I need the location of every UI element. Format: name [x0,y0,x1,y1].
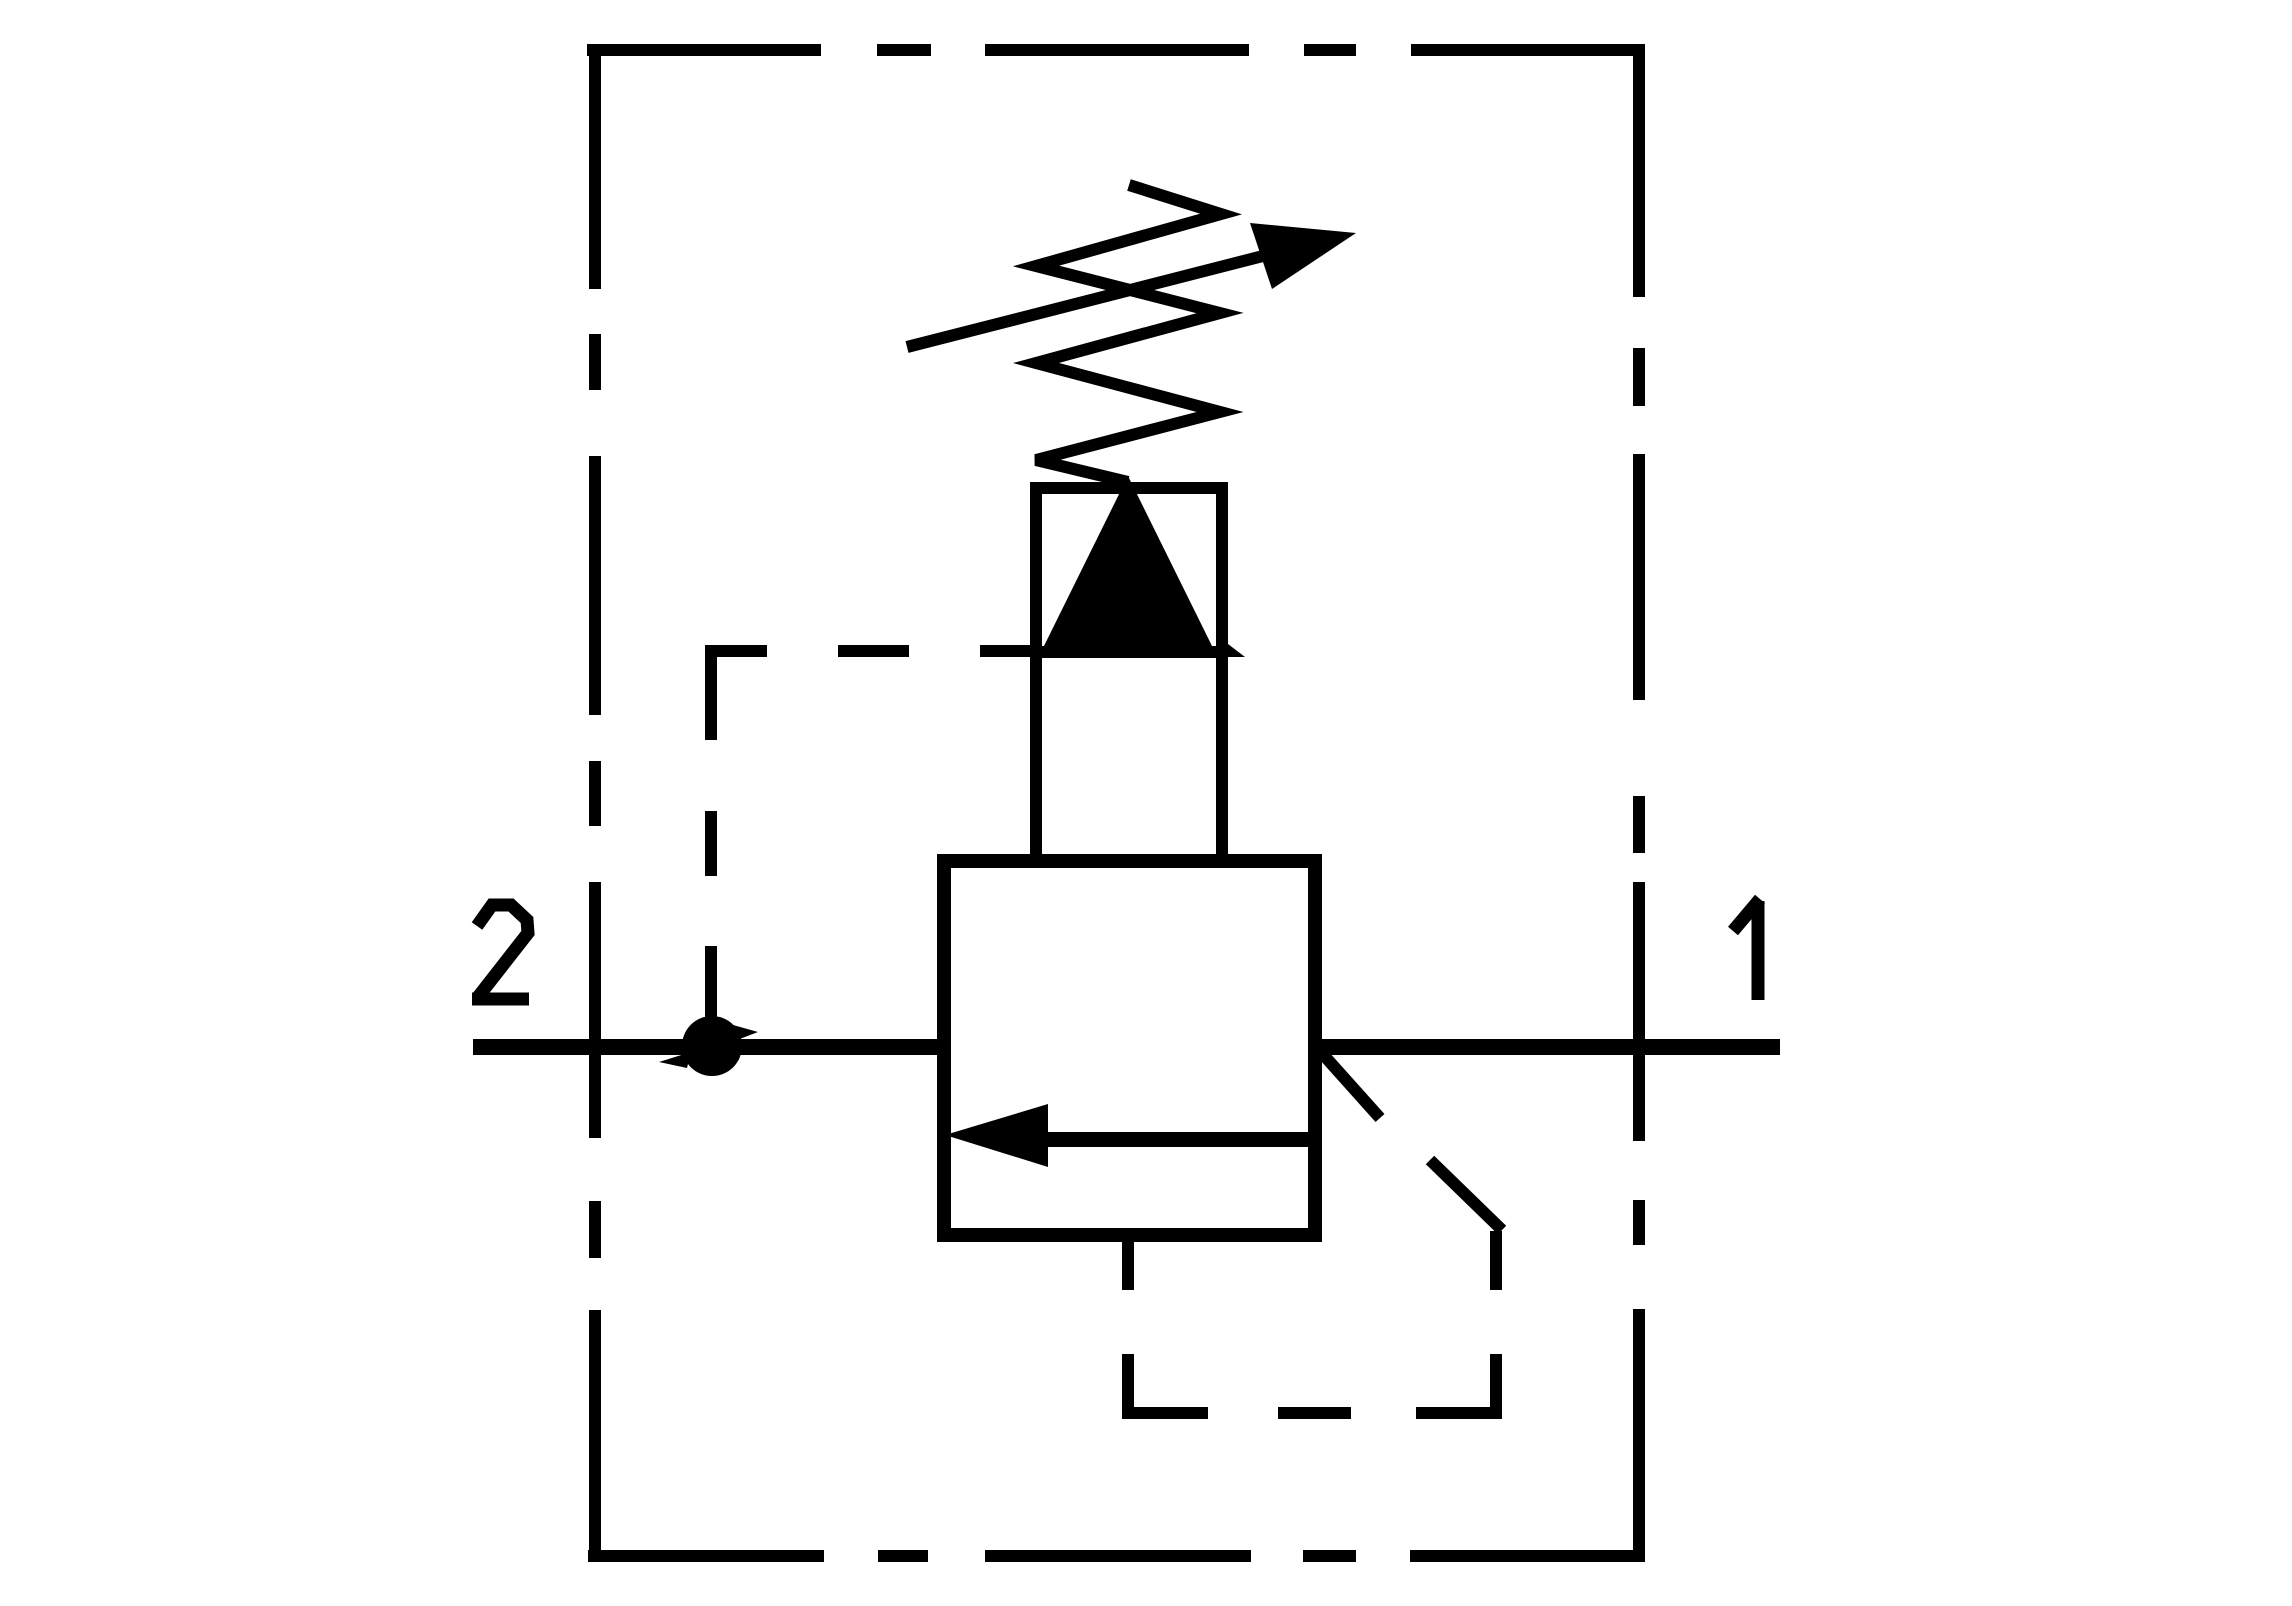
drain diagonal dash from body corner [1320,1051,1380,1118]
adjustment arrow shaft through spring [907,244,1310,347]
main valve body box [944,861,1315,1235]
pilot valve box [1036,488,1222,861]
drain left corner dash (horizontal to vertical up) [1128,1354,1208,1413]
drain right vertical dash [1490,1231,1502,1290]
adjustment arrow head [1250,223,1356,289]
pilot poppet filled triangle [1042,476,1214,650]
enclosure top edge (dash-dot boundary) [587,44,1645,56]
port label 2 [472,905,529,999]
drain diagonal dash 2 [1430,1160,1502,1230]
internal flow arrow head (points left) [945,1104,1048,1167]
enclosure bottom edge (dash-dot boundary) [588,1550,1645,1562]
drain bottom horizontal dash [1278,1407,1351,1419]
node junction dot on main line [682,1016,742,1076]
enclosure right edge (dash-dot boundary) [1633,44,1645,1562]
drain right corner dash (vertical to horizontal) [1416,1354,1496,1413]
wire: main flow line from port 2 to port 1 [473,1039,1780,1055]
pilot valve box bottom edge [1030,646,1228,658]
spring (adjustable, above pilot valve) [1036,185,1221,482]
port label 1 [1733,899,1760,1000]
enclosure left edge (dash-dot boundary) [589,44,601,1562]
pilot line dashed vertical segments [705,811,717,1020]
nub at pilot box lower right [1228,644,1245,657]
internal flow line in body [1042,1132,1315,1147]
body bottom stub dash [1122,1235,1134,1290]
pilot line dashed horizontal segments [838,645,1032,657]
node dot tail bottom-left [659,1052,691,1068]
node dot tail top-right [733,1025,758,1040]
pilot line dashed corner (node to pilot box) [711,651,767,740]
